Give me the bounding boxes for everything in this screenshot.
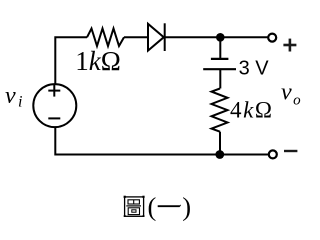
- caption glyph tu corner serifs: [124, 196, 145, 217]
- terminal bottom (open circle): [269, 150, 277, 158]
- wire diode to top node: [165, 36, 269, 38]
- svg-text:): ): [182, 192, 191, 222]
- svg-text:4kΩ: 4kΩ: [230, 98, 274, 123]
- resistor R1 1kOhm (horizontal zigzag): [87, 29, 124, 47]
- resistor R2 4kOhm (vertical zigzag): [212, 89, 228, 132]
- battery 3V long plate: [203, 68, 236, 70]
- plus sign inside source: [48, 85, 60, 97]
- svg-text:(: (: [148, 192, 157, 222]
- battery 3V short plate: [211, 58, 229, 60]
- node bottom junction dot: [215, 150, 224, 159]
- caption glyph yi (one): [158, 204, 181, 207]
- wire source bottom to bottom rail: [55, 127, 268, 154]
- wire battery to R2: [219, 69, 221, 88]
- diode D1 triangle: [148, 24, 164, 51]
- diode D1 cathode bar: [164, 23, 166, 51]
- caption glyph tu (figure) outer box: [124, 196, 145, 217]
- caption glyph tu inner box: [132, 210, 136, 212]
- minus sign output: [284, 150, 297, 152]
- wire R2 to bottom node: [219, 132, 221, 155]
- svg-text:vi: vi: [5, 83, 23, 111]
- voltage source vi (circle): [33, 84, 76, 127]
- svg-text:3 V: 3 V: [239, 58, 270, 80]
- wire top node to battery: [219, 37, 221, 59]
- caption glyph tu middle bar: [126, 205, 141, 207]
- node top junction dot: [216, 33, 225, 42]
- svg-text:1kΩ: 1kΩ: [75, 46, 121, 76]
- svg-text:vo: vo: [281, 79, 301, 108]
- wire top-left horizontal (vi to R1): [55, 37, 87, 83]
- plus sign output: [283, 39, 296, 52]
- caption glyph tu bottom box: [128, 208, 139, 215]
- caption glyph tu top box divider: [133, 200, 135, 204]
- caption glyph tu top small box: [128, 200, 139, 204]
- wire R1 to diode: [124, 36, 148, 38]
- terminal top (open circle): [268, 34, 276, 42]
- minus sign inside source: [48, 117, 60, 119]
